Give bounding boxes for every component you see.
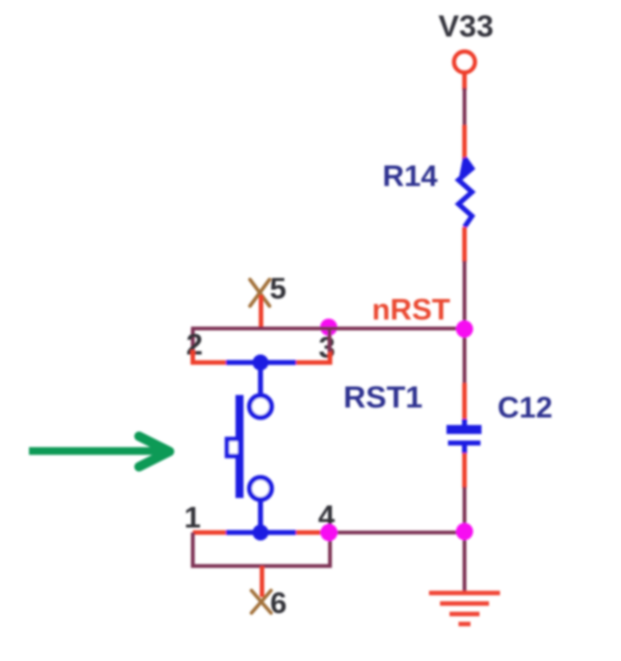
- wire pin3 up to junction: [328, 329, 332, 353]
- switch RST1 actuator bar: [236, 395, 244, 498]
- switch RST1 bottom contact: [250, 478, 272, 500]
- switch pin 1: [193, 530, 228, 535]
- junction node nRST at main rail: [456, 320, 473, 337]
- ground: [429, 593, 500, 624]
- capacitor C12 pin 1: [462, 383, 467, 425]
- wire V33 to R14: [463, 88, 467, 126]
- pin stub below V33 terminal: [462, 73, 467, 91]
- switch pin 4: [296, 530, 330, 535]
- blue wire between pins 1 and 4: [226, 530, 296, 535]
- junction node pin 4: [320, 524, 337, 541]
- switch RST1 top contact: [250, 396, 272, 418]
- wire nRST node to C12: [463, 329, 467, 385]
- svg-text:3: 3: [319, 332, 336, 365]
- svg-text:6: 6: [270, 587, 287, 620]
- wire node to ground symbol: [463, 532, 467, 592]
- wire dot to top contact: [258, 363, 263, 397]
- no-connect X on pin 6: [252, 591, 272, 614]
- svg-text:V33: V33: [438, 9, 493, 44]
- junction node nRST at pin 3: [320, 319, 337, 336]
- svg-text:C12: C12: [497, 392, 552, 425]
- capacitor C12 top plate: [447, 425, 482, 434]
- junction node ground rail: [456, 523, 473, 540]
- switch RST1 button cap: [227, 439, 240, 456]
- switch pin 6 stub: [260, 566, 265, 597]
- blue wire between pins 2 and 3: [226, 360, 296, 365]
- resistor R14 body (blue zigzag): [459, 157, 475, 227]
- no-connect X on pin 5: [250, 280, 270, 307]
- svg-text:5: 5: [270, 273, 287, 306]
- wire R14 to nRST node: [463, 261, 467, 329]
- switch pin 3: [296, 350, 330, 363]
- capacitor C12 bottom stub: [462, 446, 467, 455]
- switch pin 2: [193, 350, 228, 363]
- wire pin4 to cap rail: [330, 531, 465, 535]
- capacitor C12 top stub: [462, 419, 467, 426]
- wire bottom contact to pins 1-4: [258, 499, 263, 533]
- svg-text:nRST: nRST: [372, 294, 450, 327]
- capacitor C12 pin 2: [462, 453, 467, 488]
- junction dot pins 1-4: [253, 525, 269, 541]
- wire loop pin1 to pin4 (bottom U): [193, 533, 330, 567]
- power terminal V33 (open circle): [454, 52, 475, 73]
- wire nRST horizontal: [191, 327, 465, 331]
- svg-text:RST1: RST1: [343, 380, 422, 415]
- resistor R14 pin 1: [462, 125, 467, 160]
- wire C12 to ground node: [463, 487, 467, 533]
- svg-text:R14: R14: [382, 160, 437, 193]
- svg-text:1: 1: [184, 502, 201, 535]
- capacitor C12 bottom plate: [448, 441, 481, 446]
- junction dot pins 2-3: [253, 355, 269, 371]
- switch pin 5 stub: [259, 295, 264, 330]
- annotation green arrow: [29, 436, 170, 466]
- wire left drop to pin 2: [191, 329, 195, 355]
- resistor R14 pin 2: [462, 227, 467, 262]
